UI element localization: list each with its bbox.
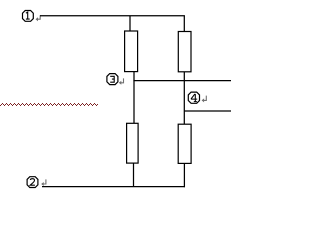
line-break mark after terminal 3 xyxy=(119,78,124,84)
wire: bottom horizontal from terminal 2 to right branch xyxy=(42,186,185,188)
line-break mark after terminal 2 xyxy=(41,179,46,186)
wire: R3 bottom to bottom rail xyxy=(133,163,135,187)
red squiggly spell-check underline xyxy=(0,103,98,106)
wire: lower output line from right branch to right edge xyxy=(184,110,231,112)
resistor R3 (lower left) xyxy=(127,123,139,163)
node 3 terminal (circled digit) xyxy=(107,74,118,85)
terminal 4 (circled digit) xyxy=(188,92,199,103)
wire: middle horizontal rail from node 3 to right edge xyxy=(133,80,231,82)
wire: R4 bottom to bottom rail xyxy=(183,163,185,187)
line-break mark after terminal 4 xyxy=(202,96,207,103)
line-break mark after terminal 1 xyxy=(36,15,41,21)
wire: drop from top wire to R1 top xyxy=(129,16,131,32)
wire: R2 bottom down to R4 top xyxy=(183,72,185,125)
terminal 2 (circled digit) xyxy=(27,177,38,188)
wire: R1 bottom down to R3 top (through node 3 rail) xyxy=(133,72,135,124)
resistor R2 (upper right) xyxy=(178,32,191,72)
terminal 1 (circled digit) xyxy=(23,11,34,22)
resistor R1 (upper left) xyxy=(125,31,138,72)
resistor R4 (lower right) xyxy=(178,124,191,163)
wire: drop from top wire to R2 top xyxy=(183,16,185,32)
wire: top horizontal from terminal 1 to right branch xyxy=(40,15,185,17)
